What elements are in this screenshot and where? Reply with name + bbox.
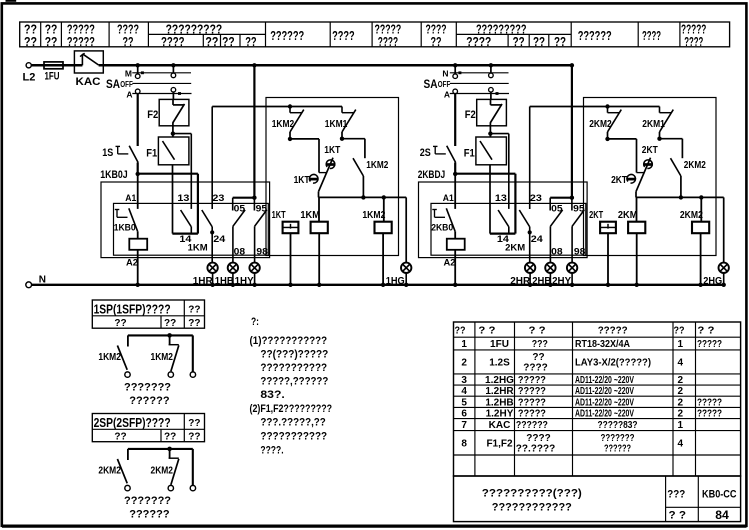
- svg-text:? ?: ? ?: [697, 325, 714, 336]
- svg-text:24: 24: [213, 234, 226, 245]
- svg-text:1KM1: 1KM1: [325, 118, 348, 130]
- svg-text:????: ????: [466, 34, 491, 49]
- svg-text:?????: ?????: [518, 397, 546, 408]
- svg-text:1HG: 1HG: [386, 275, 405, 287]
- svg-text:1KM: 1KM: [188, 242, 208, 253]
- svg-text:1KT: 1KT: [294, 174, 310, 186]
- svg-text:????: ????: [332, 28, 355, 43]
- svg-text:SA: SA: [424, 79, 438, 91]
- svg-text:SA: SA: [106, 79, 120, 91]
- svg-text:8: 8: [461, 438, 467, 449]
- svg-text:1: 1: [678, 420, 684, 431]
- svg-text:? ?: ? ?: [529, 325, 546, 336]
- svg-text:??????: ??????: [270, 28, 304, 43]
- svg-text:2HB: 2HB: [532, 275, 551, 287]
- svg-text:2KM: 2KM: [505, 242, 525, 253]
- svg-text:??????: ??????: [604, 443, 631, 454]
- svg-text:????: ????: [161, 34, 185, 49]
- svg-text:??: ??: [674, 325, 685, 336]
- svg-text:??: ??: [222, 34, 235, 49]
- svg-text:????: ????: [378, 34, 398, 49]
- svg-text:2KM: 2KM: [618, 209, 638, 221]
- svg-text:08: 08: [234, 246, 246, 257]
- svg-text:?????: ?????: [697, 339, 722, 350]
- svg-text:2HG: 2HG: [703, 275, 722, 287]
- svg-text:?????: ?????: [67, 34, 95, 49]
- svg-text:1KM: 1KM: [300, 209, 320, 221]
- svg-text:AD11-22/20 ~220V: AD11-22/20 ~220V: [575, 397, 634, 408]
- svg-text:???.?????,??: ???.?????,??: [260, 417, 326, 429]
- svg-text:???????????: ???????????: [260, 430, 327, 442]
- svg-text:1KM2: 1KM2: [151, 351, 174, 363]
- svg-text:???: ???: [667, 489, 685, 501]
- svg-text:A2: A2: [444, 257, 456, 268]
- svg-text:13: 13: [495, 193, 507, 204]
- svg-text:1HB: 1HB: [215, 275, 234, 287]
- svg-text:????: ????: [523, 362, 547, 373]
- svg-text:1KM2: 1KM2: [98, 351, 121, 363]
- svg-text:(2)F1,F2?????????: (2)F1,F2?????????: [250, 403, 333, 415]
- svg-text:AD11-22/20 ~220V: AD11-22/20 ~220V: [575, 409, 634, 420]
- svg-text:1.2HG: 1.2HG: [485, 375, 514, 386]
- svg-text:1KM2: 1KM2: [366, 159, 388, 171]
- svg-text:3: 3: [461, 375, 467, 386]
- svg-text:1KM2: 1KM2: [272, 118, 295, 130]
- svg-text:1S: 1S: [102, 147, 113, 159]
- svg-text:KAC: KAC: [76, 76, 101, 88]
- svg-text:A: A: [444, 90, 450, 100]
- svg-text:? ?: ? ?: [478, 325, 495, 336]
- svg-text:?????: ?????: [598, 324, 628, 336]
- svg-text:08: 08: [551, 246, 563, 257]
- svg-text:??: ??: [188, 418, 200, 429]
- svg-text:???????: ???????: [124, 382, 171, 394]
- svg-text:1.2HR: 1.2HR: [485, 386, 514, 397]
- svg-text:F1: F1: [464, 148, 475, 160]
- svg-text:??: ??: [205, 34, 218, 49]
- svg-text:F2: F2: [147, 109, 158, 121]
- svg-text:2HR: 2HR: [510, 275, 530, 287]
- svg-text:F1,F2: F1,F2: [486, 438, 513, 449]
- svg-text:1HY: 1HY: [235, 275, 254, 287]
- svg-text:??: ??: [245, 34, 256, 49]
- svg-text:??????: ??????: [129, 509, 170, 521]
- svg-text:2: 2: [678, 409, 684, 420]
- svg-text:2KT: 2KT: [642, 144, 658, 156]
- svg-text:6: 6: [461, 409, 467, 420]
- svg-text:??: ??: [431, 34, 442, 49]
- svg-text:2KT: 2KT: [611, 174, 627, 186]
- svg-text:2KM2: 2KM2: [151, 464, 174, 476]
- svg-text:7: 7: [461, 420, 467, 431]
- svg-text:??????: ??????: [516, 420, 548, 431]
- svg-text:2KM2: 2KM2: [680, 209, 703, 221]
- svg-text:A2: A2: [126, 257, 138, 268]
- svg-text:1KB0J: 1KB0J: [100, 169, 128, 181]
- svg-text:??: ??: [533, 34, 545, 49]
- svg-text:84: 84: [715, 508, 729, 522]
- svg-text:???????: ???????: [601, 433, 635, 444]
- svg-text:1KT: 1KT: [272, 209, 286, 221]
- svg-text:1FU: 1FU: [45, 71, 60, 83]
- svg-text:1.2S: 1.2S: [489, 357, 510, 368]
- svg-text:1: 1: [461, 339, 467, 350]
- svg-text:2KM1: 2KM1: [642, 118, 665, 130]
- svg-text:2KM2: 2KM2: [589, 118, 612, 130]
- svg-text:83?.: 83?.: [260, 389, 284, 401]
- svg-text:1SP(1SFP)????: 1SP(1SFP)????: [94, 302, 171, 316]
- svg-text:?:: ?:: [251, 316, 259, 328]
- svg-text:2SP(2SFP)????: 2SP(2SFP)????: [94, 416, 171, 430]
- svg-text:??: ??: [554, 34, 566, 49]
- svg-text:2: 2: [461, 357, 467, 368]
- svg-text:AD11-22/20 ~220V: AD11-22/20 ~220V: [575, 386, 634, 397]
- svg-text:??: ??: [114, 318, 126, 329]
- svg-text:23: 23: [530, 193, 542, 204]
- svg-text:????: ????: [642, 28, 661, 43]
- svg-text:N: N: [442, 69, 448, 79]
- svg-text:23: 23: [212, 193, 224, 204]
- svg-text:?????,??????: ?????,??????: [260, 376, 328, 388]
- svg-text:??: ??: [164, 432, 176, 443]
- svg-text:??????????(???): ??????????(???): [482, 487, 582, 499]
- svg-text:??: ??: [188, 432, 200, 443]
- svg-text:2: 2: [678, 397, 684, 408]
- svg-text:F2: F2: [465, 109, 476, 121]
- svg-text:??(???)?????: ??(???)?????: [260, 348, 328, 360]
- svg-text:?????: ?????: [518, 386, 546, 397]
- svg-text:??????: ??????: [578, 28, 612, 43]
- svg-text:LAY3-X/2(?????): LAY3-X/2(?????): [575, 357, 651, 368]
- svg-text:1HR: 1HR: [193, 275, 213, 287]
- svg-text:?????: ?????: [697, 397, 722, 408]
- svg-text:2KM2: 2KM2: [98, 464, 121, 476]
- svg-text:2HY: 2HY: [552, 275, 571, 287]
- svg-text:M: M: [125, 69, 132, 79]
- svg-text:?????: ?????: [518, 375, 546, 386]
- svg-text:AD11-22/20 ~220V: AD11-22/20 ~220V: [575, 375, 634, 386]
- svg-text:1KB0: 1KB0: [114, 222, 136, 233]
- svg-text:??: ??: [455, 325, 466, 336]
- svg-text:??: ??: [513, 34, 525, 49]
- svg-text:1KM2: 1KM2: [362, 209, 385, 221]
- svg-text:???????: ???????: [124, 495, 171, 507]
- svg-text:??: ??: [164, 318, 176, 329]
- svg-text:L2: L2: [23, 72, 36, 84]
- svg-text:4: 4: [678, 357, 684, 368]
- svg-text:2KB0: 2KB0: [431, 222, 453, 233]
- svg-text:????.: ????.: [260, 445, 283, 457]
- svg-text:2: 2: [678, 375, 684, 386]
- svg-text:A: A: [126, 90, 132, 100]
- svg-text:24: 24: [531, 234, 544, 245]
- svg-text:??: ??: [188, 305, 200, 316]
- svg-text:?????: ?????: [697, 409, 722, 420]
- svg-text:?????: ?????: [518, 409, 546, 420]
- svg-text:? ?: ? ?: [669, 510, 687, 522]
- svg-text:5: 5: [461, 397, 467, 408]
- svg-text:2: 2: [678, 386, 684, 397]
- svg-text:4: 4: [678, 438, 684, 449]
- svg-text:??: ??: [114, 432, 126, 443]
- svg-text:2S: 2S: [420, 147, 431, 159]
- svg-text:??: ??: [24, 34, 37, 49]
- svg-text:N: N: [39, 274, 46, 285]
- svg-text:????????????: ????????????: [492, 501, 572, 513]
- svg-text:F1: F1: [146, 148, 157, 160]
- svg-text:????: ????: [526, 433, 550, 444]
- svg-text:??: ??: [123, 34, 134, 49]
- svg-text:KAC: KAC: [489, 420, 511, 431]
- svg-text:4: 4: [461, 386, 467, 397]
- svg-text:??: ??: [45, 34, 58, 49]
- svg-text:???: ???: [532, 339, 548, 350]
- svg-text:A1: A1: [443, 193, 455, 204]
- svg-text:?????83?: ?????83?: [598, 420, 638, 431]
- svg-text:OFF: OFF: [438, 80, 451, 89]
- svg-text:1.2HY: 1.2HY: [486, 409, 514, 420]
- svg-text:A1: A1: [125, 193, 137, 204]
- svg-text:2KM2: 2KM2: [684, 159, 706, 171]
- svg-text:1: 1: [678, 339, 684, 350]
- svg-text:OFF: OFF: [120, 80, 133, 89]
- svg-text:2KT: 2KT: [589, 209, 603, 221]
- svg-text:????: ????: [684, 34, 703, 49]
- svg-text:???????????: ???????????: [260, 362, 327, 374]
- svg-text:RT18-32X/4A: RT18-32X/4A: [575, 339, 630, 350]
- svg-text:1.2HB: 1.2HB: [485, 397, 513, 408]
- svg-text:??????: ??????: [129, 395, 170, 407]
- svg-text:??: ??: [532, 352, 544, 363]
- svg-text:1KT: 1KT: [324, 144, 340, 156]
- svg-text:??: ??: [188, 318, 200, 329]
- svg-text:(1)???????????: (1)???????????: [250, 335, 328, 347]
- svg-text:??.????: ??.????: [516, 443, 555, 454]
- svg-text:KB0-CC: KB0-CC: [702, 489, 737, 501]
- svg-text:13: 13: [177, 193, 189, 204]
- svg-text:1FU: 1FU: [490, 339, 509, 350]
- svg-text:2KBDJ: 2KBDJ: [418, 169, 446, 181]
